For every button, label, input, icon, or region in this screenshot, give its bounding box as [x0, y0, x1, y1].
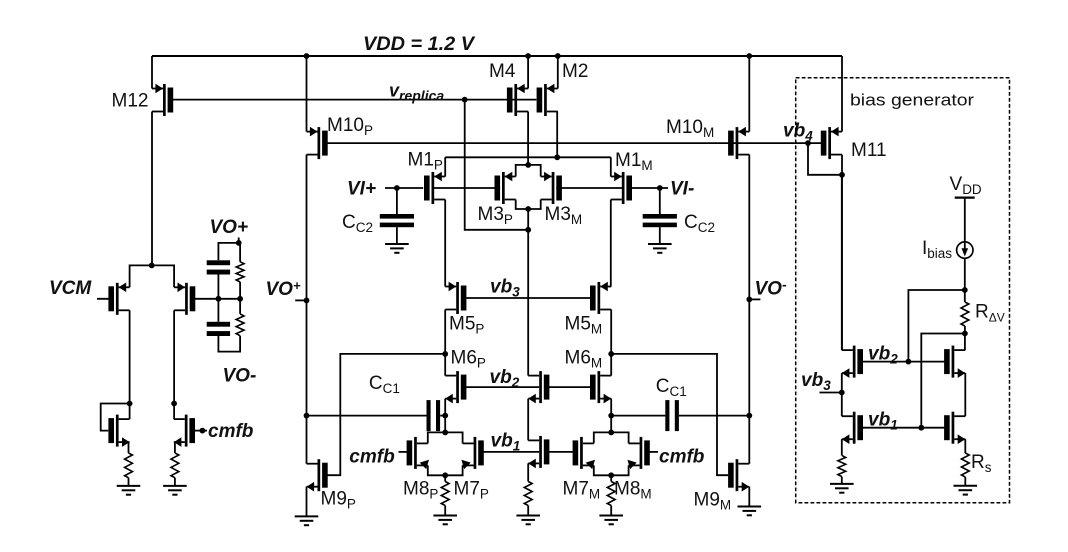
transistor M3P	[495, 172, 516, 204]
node divider mid-res	[237, 296, 243, 302]
transistor M5M	[590, 282, 611, 314]
wire M6M source down	[610, 399, 612, 433]
label M9M	[694, 490, 732, 513]
wire bias mirror mid link	[964, 373, 966, 416]
node vb1 bias	[918, 425, 924, 431]
svg-text:Rs: Rs	[971, 452, 992, 475]
transistor M2	[537, 84, 558, 116]
label M1P	[408, 150, 443, 173]
capacitor C_C1 left	[427, 400, 441, 431]
wire vb1 rail right	[549, 451, 573, 453]
transistor left mirror NMOS	[108, 415, 129, 447]
svg-text:CC1: CC1	[369, 373, 400, 396]
transistor VCM-left PMOS	[108, 283, 129, 315]
label VI+	[347, 179, 376, 200]
wire M11 drain into bias	[841, 175, 843, 350]
ground M9P	[295, 516, 319, 525]
transistor bias vb1 NMOS	[842, 412, 863, 444]
label M12	[112, 91, 149, 112]
svg-text:vb1: vb1	[868, 410, 898, 433]
node VDD-M10P junction	[304, 53, 310, 59]
svg-text:M12: M12	[112, 91, 149, 112]
wire cmfb stub right	[650, 451, 659, 453]
transistor bias mirror-top NMOS	[944, 346, 965, 378]
label VO- rail	[755, 277, 787, 300]
svg-text:VDD: VDD	[950, 174, 982, 197]
ground left diamond	[433, 516, 457, 525]
label bias generator	[850, 91, 974, 110]
label C_C1 right	[656, 376, 687, 399]
svg-text:M4: M4	[489, 61, 516, 82]
label VI-	[670, 179, 694, 200]
supply bar VDD bias	[955, 197, 975, 199]
wire M6M to M9M gate	[611, 354, 728, 475]
svg-text:M1M: M1M	[615, 150, 653, 173]
label VO+ rail	[266, 278, 301, 300]
wire divider mid	[217, 275, 219, 322]
node VO+ tap	[304, 298, 310, 304]
wire right diamond resistor to ground	[610, 506, 612, 516]
resistor center tail	[524, 482, 532, 506]
label vb1	[491, 431, 521, 454]
wire cm sense lead	[195, 298, 240, 300]
transistor M7M	[573, 437, 595, 469]
wire M9M source down	[748, 487, 750, 507]
node M6M drain junction	[608, 351, 614, 357]
node replica-center junction	[525, 227, 531, 233]
wire vb1 rail left	[484, 451, 540, 453]
wire M1M drain down	[610, 200, 612, 287]
label C_C1 left	[369, 373, 400, 396]
ground M9M	[738, 507, 762, 516]
wire cmfb NMOS source down	[174, 442, 176, 453]
wire v_replica (M12 gate to M2 gate)	[173, 99, 537, 101]
wire C_C2-right to ground	[659, 227, 661, 244]
wire M1P drain down	[444, 200, 446, 287]
wire Rs to gnd	[964, 477, 966, 486]
label C_C2 left	[342, 212, 373, 235]
label VO+ divider	[210, 217, 249, 238]
node VO- tap	[746, 297, 752, 303]
wire VO+ stub	[238, 238, 240, 243]
svg-text:M9P: M9P	[321, 489, 356, 512]
svg-text:RΔV: RΔV	[975, 302, 1005, 325]
wire vb2 gate rail bias	[863, 361, 945, 363]
wire M5P drain down	[444, 310, 446, 376]
svg-text:VO+: VO+	[266, 278, 301, 300]
label M7P	[454, 479, 489, 502]
label M6P	[451, 348, 486, 371]
wire M6P source down	[444, 399, 446, 433]
transistor M1P	[424, 172, 445, 204]
label vb2	[490, 367, 520, 390]
wire vb1-center source down	[527, 463, 529, 481]
node C_C1 right outer	[746, 413, 752, 419]
resistor divider bottom	[236, 314, 244, 336]
label M10M	[666, 117, 714, 140]
wire vb3 node link	[841, 373, 843, 416]
label M11	[851, 140, 887, 161]
label vb3 bias	[801, 370, 831, 393]
wire VCM lead	[97, 298, 114, 300]
wire left mirror diode loop	[101, 404, 130, 431]
wire Ibias to node	[964, 258, 966, 302]
svg-text:M9M: M9M	[694, 490, 732, 513]
node M11 drain junction	[839, 172, 845, 178]
svg-text:M10P: M10P	[327, 115, 373, 138]
svg-text:vb1: vb1	[491, 431, 521, 454]
node divider mid-cap	[216, 296, 222, 302]
label M3P	[478, 204, 513, 227]
current source Ibias	[957, 242, 973, 258]
wire M12 drain down-left	[151, 112, 153, 266]
label vb4	[783, 121, 813, 144]
transistor M1M	[611, 172, 632, 204]
label VDD bias	[950, 174, 982, 197]
wire C_C2-left to ground	[396, 227, 398, 244]
ground center	[516, 516, 540, 525]
svg-text:VCM: VCM	[49, 278, 92, 299]
wire C_C2-right stem	[659, 188, 661, 214]
wire M12 source from VDD	[151, 56, 153, 89]
wire divider mid res	[239, 282, 241, 314]
label VCM	[49, 278, 92, 299]
wire M11 drain down	[841, 155, 843, 351]
label M2	[562, 61, 588, 82]
transistor M8M	[627, 437, 649, 469]
node C_C1 right inner	[608, 413, 614, 419]
svg-text:vb2: vb2	[868, 344, 898, 367]
label cmfb mid-right	[659, 447, 705, 468]
node C_C1 left inner	[442, 413, 448, 419]
node C_C1 left outer	[304, 413, 310, 419]
node vb2 bias	[906, 359, 912, 365]
svg-text:M7P: M7P	[454, 479, 489, 502]
node vb3 bias	[839, 390, 845, 396]
wire VO- tap stub	[749, 298, 760, 300]
transistor VCM-right PMOS	[174, 283, 195, 315]
wire left diamond resistor to ground	[444, 506, 446, 516]
wire C_C1 left inner lead	[440, 415, 445, 417]
wire M1P source up	[444, 157, 446, 176]
wire right PMOS drain down	[173, 310, 175, 419]
node VI+	[394, 185, 400, 191]
node Ibias out	[962, 287, 968, 293]
transistor bias mirror-bot NMOS	[944, 412, 965, 444]
wire M5M drain down	[610, 310, 612, 376]
transistor cmfb NMOS	[174, 415, 195, 447]
svg-text:Ibias: Ibias	[922, 238, 952, 261]
transistor vb2 center	[528, 371, 549, 403]
capacitor divider bottom	[207, 322, 230, 336]
transistor M9P	[307, 459, 328, 491]
node VI-	[657, 185, 663, 191]
wire vb2 rail right	[549, 386, 590, 388]
ground Rs	[954, 486, 978, 495]
wire VO+ rail (M10P drain down)	[306, 155, 308, 464]
label C_C2 right	[684, 212, 715, 235]
wire M10M source from VDD	[748, 56, 750, 132]
label M4	[489, 61, 516, 82]
wire bias left res to gnd	[841, 477, 843, 484]
label M6M	[565, 348, 603, 371]
node divider top	[236, 240, 242, 246]
svg-text:VO-: VO-	[223, 366, 257, 387]
node v_replica junction	[462, 97, 468, 103]
bias generator dashed box	[796, 78, 1010, 503]
wire left diamond top bridge	[428, 430, 463, 444]
svg-text:VO+: VO+	[210, 217, 249, 238]
label M8P	[403, 479, 438, 502]
svg-text:bias generator: bias generator	[850, 91, 974, 110]
wire left diamond to resistor	[444, 475, 446, 481]
node vb4	[805, 140, 811, 146]
svg-text:cmfb: cmfb	[659, 447, 705, 468]
resistor Rs	[961, 453, 969, 477]
node VDD-M10M junction	[746, 53, 752, 59]
node R_dV bottom	[962, 331, 968, 337]
wire center resistor to ground	[527, 506, 529, 516]
wire M1M source up	[610, 157, 612, 176]
resistor right diamond tail	[607, 482, 615, 506]
wire C_C2-left stem	[396, 188, 398, 214]
wire VI- lead	[632, 187, 668, 189]
wire vb3 stub	[820, 392, 842, 394]
label VDD supply	[363, 34, 475, 55]
wire M10P source from VDD	[306, 56, 308, 132]
node M2-drain on sources rail	[554, 154, 560, 160]
svg-text:vreplica: vreplica	[389, 81, 444, 104]
label M5P	[449, 314, 484, 337]
capacitor divider top	[207, 260, 230, 274]
svg-text:M2: M2	[562, 61, 588, 82]
svg-text:VI-: VI-	[670, 179, 694, 200]
wire divider top rail	[218, 243, 240, 262]
transistor M6P	[445, 371, 466, 403]
svg-text:CC1: CC1	[656, 376, 687, 399]
svg-text:M3M: M3M	[545, 204, 583, 227]
svg-text:VI+: VI+	[347, 179, 376, 200]
ground right diamond	[599, 516, 623, 525]
wire VO- rail (M10M drain down)	[748, 155, 750, 464]
transistor M3M	[541, 172, 562, 204]
wire center column upper	[527, 209, 529, 376]
wire v_replica drop	[465, 100, 529, 230]
ground cmfb NMOS	[163, 486, 187, 495]
wire M9P source down	[306, 487, 308, 517]
transistor M6M	[590, 371, 611, 403]
svg-text:M1P: M1P	[408, 150, 443, 173]
label M9P	[321, 489, 356, 512]
wire R_dV bottom to vb1 feed	[921, 334, 965, 428]
label M3M	[545, 204, 583, 227]
svg-text:vb4: vb4	[783, 121, 813, 144]
label M5M	[565, 314, 603, 337]
wire Rs top	[964, 439, 966, 453]
label v_replica	[389, 81, 444, 104]
capacitor C_C2 right	[643, 214, 677, 227]
wire M1 sources rail	[445, 156, 611, 158]
transistor M5P	[445, 282, 466, 314]
svg-text:VO-: VO-	[755, 277, 787, 300]
wire M3P bottom link	[516, 200, 529, 210]
wire vb3 rail	[466, 297, 590, 299]
ground C_C2 right	[648, 244, 672, 253]
svg-text:M3P: M3P	[478, 204, 513, 227]
svg-text:M5P: M5P	[449, 314, 484, 337]
resistor cmfb NMOS	[171, 453, 179, 478]
node VDD-M2 junction	[555, 53, 561, 59]
svg-text:CC2: CC2	[684, 212, 715, 235]
wire bias left source down	[841, 439, 843, 455]
wire vb2 rail left	[466, 386, 539, 388]
svg-text:VDD = 1.2 V: VDD = 1.2 V	[363, 34, 475, 55]
svg-text:M11: M11	[851, 140, 887, 161]
wire left mirror res to gnd	[128, 478, 130, 486]
ground C_C2 left	[385, 244, 409, 253]
wire M3M gate lead	[556, 187, 623, 189]
label VO- divider	[223, 366, 257, 387]
label cmfb left block	[208, 421, 254, 442]
label Rs	[971, 452, 992, 475]
wire M11 diode link	[808, 143, 842, 175]
svg-text:M5M: M5M	[565, 314, 603, 337]
wire right diamond top bridge	[594, 430, 629, 444]
wire M3P gate lead	[434, 187, 500, 189]
transistor M12	[152, 84, 173, 116]
wire cmfb res to gnd	[174, 478, 176, 486]
wire left block top tee	[130, 265, 175, 287]
resistor bias left tail	[838, 455, 846, 476]
label cmfb mid-left	[349, 447, 395, 468]
resistor left mirror	[125, 453, 133, 478]
label M10P	[327, 115, 373, 138]
wire cmfb stub left	[399, 451, 407, 453]
transistor M11	[821, 127, 842, 159]
label M8M	[614, 479, 652, 502]
wire C_C1 right outer lead	[679, 415, 749, 417]
node M3 bottom	[525, 206, 531, 212]
label Ibias	[922, 238, 952, 261]
wire VI+ lead	[385, 187, 423, 189]
wire right diamond bottom bridge	[594, 465, 629, 478]
label M1M	[615, 150, 653, 173]
svg-text:vb3: vb3	[490, 277, 520, 300]
wire VDD rail	[152, 55, 842, 57]
node left block top	[149, 263, 155, 269]
wire divider bottom rail	[218, 331, 240, 352]
node left mirror junction	[127, 401, 133, 407]
wire right diamond to resistor	[610, 475, 612, 481]
capacitor C_C2 left	[380, 214, 414, 227]
wire M10 gate rail	[327, 142, 821, 144]
wire R_dV to node	[964, 326, 966, 334]
wire M4 drain down	[527, 112, 529, 165]
transistor M8P	[407, 437, 429, 469]
wire left PMOS drain down	[129, 310, 131, 419]
wire vb2-center source down	[527, 399, 529, 441]
wire VO+ tap stub	[295, 299, 306, 301]
label vb2 bias	[868, 344, 898, 367]
svg-text:cmfb: cmfb	[208, 421, 254, 442]
node M6P drain junction	[442, 351, 448, 357]
node M3 top	[525, 162, 531, 168]
svg-text:M6P: M6P	[451, 348, 486, 371]
wire M3M top link	[528, 165, 541, 177]
wire cmfb gate stub	[195, 430, 207, 432]
svg-text:M7M: M7M	[563, 479, 601, 502]
svg-text:vb3: vb3	[801, 370, 831, 393]
ground left mirror	[117, 486, 141, 495]
transistor bias vb2 NMOS	[842, 346, 863, 378]
svg-text:M8M: M8M	[614, 479, 652, 502]
wire left diamond bottom bridge	[428, 465, 463, 478]
label vb1 bias	[868, 410, 898, 433]
node VDD-M4 junction	[525, 53, 531, 59]
svg-text:M10M: M10M	[666, 117, 714, 140]
wire M3M bottom link	[528, 200, 541, 210]
transistor M7P	[461, 437, 483, 469]
wire vb1 gate rail bias	[863, 427, 945, 429]
label R_dV	[975, 302, 1005, 325]
wire M6P to M9P gate	[327, 354, 445, 475]
wire left mirror source down	[128, 442, 130, 453]
svg-text:cmfb: cmfb	[349, 447, 395, 468]
wire M4 source up	[527, 56, 529, 89]
node right mirror junction	[171, 401, 177, 407]
label M7M	[563, 479, 601, 502]
resistor left diamond tail	[441, 482, 449, 506]
wire VDD to Ibias	[964, 198, 966, 242]
transistor M4	[507, 84, 528, 116]
ground bias left	[830, 484, 854, 493]
capacitor C_C1 right	[665, 400, 679, 431]
resistor R_dV	[961, 302, 969, 326]
wire C_C1 left lead	[307, 415, 427, 417]
wire M2 drain down	[556, 112, 558, 158]
svg-text:vb2: vb2	[490, 367, 520, 390]
svg-text:M6M: M6M	[565, 348, 603, 371]
wire R_dV to mirror top drain	[964, 334, 966, 351]
wire vb2 feed	[908, 290, 964, 362]
wire C_C1 right lead	[611, 415, 665, 417]
transistor M9M	[728, 459, 749, 491]
node cmfb gate	[200, 428, 206, 434]
wire M11 source from VDD	[841, 56, 843, 132]
transistor M10P	[307, 127, 328, 159]
wire M2 source up	[557, 56, 559, 89]
resistor divider top	[236, 262, 244, 282]
transistor vb1 center	[528, 436, 549, 468]
transistor M10M	[728, 127, 749, 159]
svg-text:CC2: CC2	[342, 212, 373, 235]
label vb3	[490, 277, 520, 300]
wire M3P top link	[516, 165, 529, 177]
svg-text:M8P: M8P	[403, 479, 438, 502]
